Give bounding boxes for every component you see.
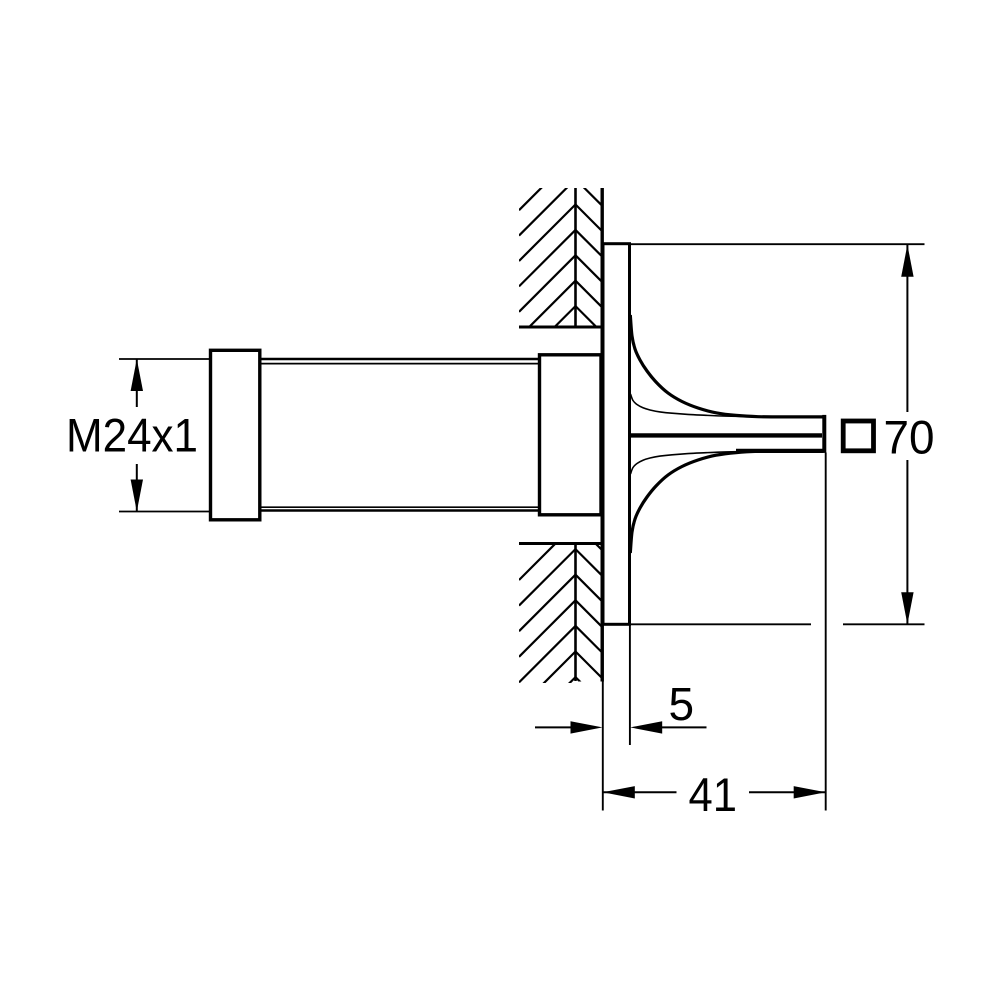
horn inner curve lower — [631, 451, 753, 474]
svg-text:M24x1: M24x1 — [66, 410, 198, 463]
dimension 41 left extension line — [602, 625, 604, 811]
horn inner curve upper — [631, 394, 753, 417]
dimension 70 line lower segment — [906, 460, 908, 624]
svg-text:70: 70 — [884, 411, 935, 464]
dimension 70 bottom extension line left part — [602, 623, 812, 625]
dimension 70 arrowhead down — [901, 592, 913, 624]
horn outer curve upper — [630, 315, 823, 417]
wall inner boundary line upper — [574, 188, 577, 327]
dimension 70 bottom extension line right part — [843, 623, 925, 625]
threaded tube outer top edge — [258, 358, 542, 361]
threaded tube thread-root top line — [258, 363, 542, 365]
horn outer curve lower — [630, 451, 823, 553]
wall hatch lower finish-strip lines — [576, 524, 604, 705]
spout stem bottom edge — [736, 449, 824, 453]
svg-text:41: 41 — [689, 769, 738, 822]
wall hatch lower-left diagonal lines — [519, 524, 576, 734]
dimension 5 arrowhead pointing left — [630, 721, 662, 733]
escutcheon flange plate — [603, 244, 630, 625]
wall face line — [601, 188, 604, 682]
threaded tube thread-root bottom line — [258, 506, 542, 508]
wall hatch upper-left diagonal lines — [519, 154, 576, 388]
dimension 41 line left segment — [603, 791, 677, 793]
protection cap rectangle — [211, 350, 260, 520]
dimension 70 top extension line — [630, 243, 925, 245]
dimension 41 line right segment — [749, 791, 826, 793]
wall lower section top edge — [519, 542, 601, 545]
dimension 41 right extension line — [825, 453, 827, 811]
valve body rectangle in wall — [540, 355, 602, 515]
dimension 5 left arrow line — [535, 726, 572, 728]
wall inner boundary line lower — [574, 544, 577, 682]
dimension M24x1 line upper segment — [136, 359, 138, 407]
dimension 5 right arrow line — [661, 726, 707, 728]
threaded tube outer bottom edge — [258, 509, 542, 512]
dimension 70 arrowhead up — [901, 245, 913, 277]
dimension M24x1 top extension line — [119, 358, 211, 360]
dimension M24x1 arrowhead up — [131, 359, 143, 391]
dimension M24x1 arrowhead down — [131, 480, 143, 512]
dimension 5 arrowhead pointing right — [571, 721, 603, 733]
spout stem centre joint line — [630, 433, 822, 437]
square symbol for 70 — [843, 421, 873, 451]
dimension M24x1 line lower segment — [136, 464, 138, 512]
dimension 70 line upper segment — [906, 245, 908, 412]
dimension M24x1 bottom extension line — [119, 511, 211, 513]
wall upper section bottom edge — [519, 326, 605, 329]
dimension 41 arrowhead pointing right — [794, 786, 826, 798]
dimension 41 arrowhead pointing left — [603, 786, 635, 798]
wall hatch upper finish-strip lines — [576, 154, 604, 359]
dimension 5 right extension line — [629, 625, 631, 746]
spout stem tip face — [822, 415, 826, 453]
svg-text:5: 5 — [669, 678, 695, 730]
